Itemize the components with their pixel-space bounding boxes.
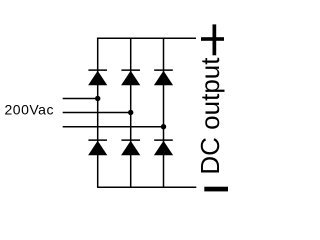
svg-text:200Vac: 200Vac [5, 102, 54, 118]
wire: AC phase 3 input [63, 126, 164, 128]
diode D3 (upper right) [154, 70, 173, 85]
wire: bridge leg 3 (right vertical) [163, 38, 165, 188]
wire: top DC+ rail [98, 37, 196, 39]
node: phase 3 junction [161, 124, 166, 129]
terminal + (DC positive) [201, 24, 224, 55]
diode D4 (lower left) [88, 140, 107, 155]
diode D5 (lower middle) [121, 140, 140, 155]
node: phase 2 junction [128, 110, 133, 115]
wire: AC phase 1 input [63, 98, 98, 100]
wire: AC phase 2 input [63, 112, 131, 114]
diode D6 (lower right) [154, 140, 173, 155]
diode D1 (upper left) [88, 70, 107, 85]
wire: bottom DC- rail [98, 186, 197, 188]
svg-text:DC output: DC output [195, 57, 225, 175]
wire: bridge leg 1 (left vertical) [97, 38, 99, 188]
diode D2 (upper middle) [121, 70, 140, 85]
wire: bridge leg 2 (middle vertical) [130, 38, 132, 188]
node: phase 1 junction [95, 96, 100, 101]
terminal - (DC negative) [204, 187, 228, 192]
